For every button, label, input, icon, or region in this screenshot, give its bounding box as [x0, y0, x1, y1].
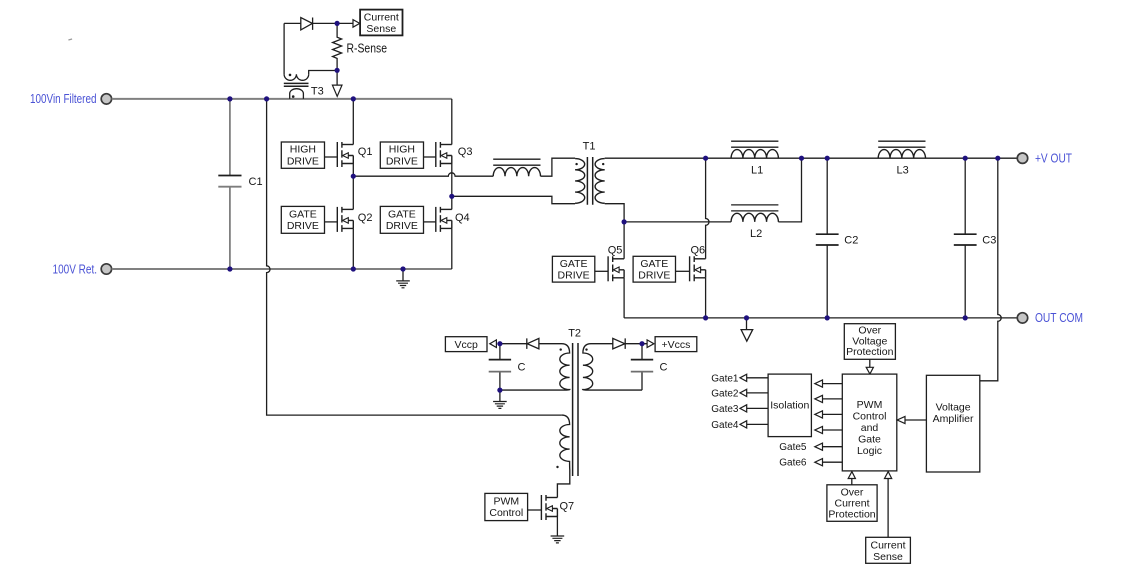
- wire GATE DRIVE to Q4 gate: [424, 221, 436, 223]
- transistor Q1: [337, 142, 353, 167]
- svg-text:Q6: Q6: [691, 244, 706, 256]
- T1 polarity dot secondary: [602, 163, 604, 165]
- wire OUT COM rail: [624, 317, 1017, 319]
- transistor Q3: [436, 142, 452, 167]
- Gate3 line and arrow: [747, 407, 768, 409]
- svg-text:Q7: Q7: [560, 501, 575, 513]
- svg-text:OUT COM: OUT COM: [1035, 311, 1083, 325]
- svg-text:HIGH: HIGH: [389, 144, 415, 156]
- svg-text:Gate3: Gate3: [711, 404, 739, 415]
- T2 polarity dot primary: [556, 466, 558, 468]
- wire Q3 drain to top rail: [451, 99, 453, 145]
- capacitor C left: [489, 359, 511, 361]
- wire PWM Control to Q7 gate: [528, 509, 542, 511]
- transformer T2 primary winding: [557, 415, 569, 497]
- transistor Q5: [608, 256, 624, 281]
- node rail2 / L2: [799, 156, 804, 161]
- ground under left C: [499, 390, 501, 401]
- terminal 100Vin Filtered: [101, 94, 111, 104]
- arrow VA into PWM logic: [905, 419, 926, 421]
- Gate4 line and arrow: [747, 423, 768, 425]
- svg-text:Q5: Q5: [608, 244, 623, 256]
- svg-text:100V Ret.: 100V Ret.: [53, 263, 98, 277]
- svg-text:L1: L1: [751, 164, 763, 176]
- terminal OUT COM: [1017, 313, 1027, 323]
- node top rail / C1: [227, 96, 232, 101]
- wire L2 row: [624, 221, 731, 223]
- capacitor C2: [816, 234, 839, 245]
- wire C1 branch: [229, 99, 231, 269]
- wire GATE DRIVE to Q6 gate: [676, 270, 690, 272]
- svg-text:GATE: GATE: [560, 258, 588, 270]
- wire HIGH DRIVE to Q3 gate: [424, 156, 436, 158]
- svg-text:Control: Control: [489, 507, 523, 519]
- node left C ground: [497, 388, 502, 393]
- wire secondary top rail to +V OUT: [605, 157, 1018, 159]
- PWM to Isolation arrow row 3: [823, 413, 843, 415]
- svg-text:L2: L2: [750, 228, 762, 240]
- box +Vccs: [655, 337, 697, 352]
- capacitor C3: [954, 234, 977, 245]
- terminal 100V Ret.: [101, 264, 111, 274]
- wire bottom input rail: [112, 268, 452, 270]
- svg-text:Gate6: Gate6: [779, 458, 807, 469]
- wire HIGH DRIVE to Q1 gate: [325, 156, 338, 158]
- box Voltage Amplifier: [926, 375, 979, 472]
- svg-text:Q2: Q2: [358, 212, 373, 224]
- svg-text:Control: Control: [853, 411, 887, 423]
- smudge artifact: [68, 39, 72, 40]
- node rail2 / sense: [995, 156, 1000, 161]
- box HIGH DRIVE (Q3): [380, 142, 423, 168]
- node diode / R-Sense: [335, 21, 340, 26]
- wire node A to series inductor (hops over Q3 branch): [353, 173, 493, 176]
- node top rail / Q1 drain: [351, 96, 356, 101]
- PWM to Isolation arrow row 1: [823, 383, 843, 385]
- svg-text:DRIVE: DRIVE: [386, 220, 418, 232]
- transformer T2 right secondary winding: [583, 344, 642, 390]
- svg-text:+Vccs: +Vccs: [662, 339, 691, 351]
- terminal +V OUT: [1017, 153, 1027, 163]
- svg-text:PWM: PWM: [857, 399, 883, 411]
- wire Q4 drain to node B: [451, 196, 453, 209]
- transistor Q2: [337, 207, 353, 232]
- wire OVP to PWM logic with down arrow: [869, 359, 871, 367]
- inductor L2: [731, 205, 778, 222]
- wire OCP to PWM logic with up arrow: [851, 479, 853, 485]
- node B Q3/Q4: [449, 194, 454, 199]
- T2 polarity dot right secondary: [585, 348, 587, 350]
- series inductor (resonant): [493, 159, 540, 176]
- box GATE DRIVE (Q2): [281, 206, 324, 233]
- node OUT COM / Q6 source: [703, 315, 708, 320]
- transformer T2 core: [573, 343, 578, 476]
- wire Q2 drain to node A: [352, 176, 354, 209]
- inductor L1: [731, 141, 778, 158]
- svg-text:T3: T3: [311, 85, 324, 97]
- svg-text:R-Sense: R-Sense: [347, 40, 388, 55]
- node bottom rail / ground: [400, 266, 405, 271]
- node A Q1/Q2: [351, 174, 356, 179]
- box GATE DRIVE (Q4): [380, 206, 423, 233]
- svg-text:HIGH: HIGH: [290, 144, 316, 156]
- transformer T1 core: [587, 157, 592, 205]
- svg-text:DRIVE: DRIVE: [638, 270, 670, 282]
- svg-text:Vccp: Vccp: [455, 339, 479, 351]
- box GATE DRIVE (Q6): [633, 256, 675, 282]
- wire Q1 drain to top rail: [352, 99, 354, 145]
- T3 polarity dot primary: [292, 95, 295, 98]
- capacitor C (right) branch: [641, 344, 643, 390]
- Gate1 line and arrow: [747, 377, 768, 379]
- svg-text:Protection: Protection: [846, 346, 893, 358]
- capacitor C2 branch: [826, 158, 828, 318]
- node OUT COM / C2: [825, 315, 830, 320]
- wire T3 left vertical: [283, 23, 285, 74]
- svg-text:Gate: Gate: [858, 434, 881, 446]
- box PWM Control (Q7 drive): [485, 493, 528, 520]
- svg-text:DRIVE: DRIVE: [386, 155, 418, 167]
- capacitor C3 branch: [964, 158, 966, 318]
- wire +V OUT sense to Voltage Amplifier (hops OUT COM rail): [980, 158, 1001, 381]
- wire diode feed: [284, 22, 301, 24]
- node bottom rail / Q2 source: [351, 266, 356, 271]
- capacitor C1: [218, 175, 241, 177]
- svg-text:C2: C2: [844, 234, 858, 246]
- svg-text:Gate1: Gate1: [711, 373, 739, 384]
- svg-text:T2: T2: [568, 328, 581, 340]
- Gate5 arrow row: [823, 446, 843, 448]
- node T1 secondary / Q5 drain: [622, 219, 627, 224]
- wire stub down to rail junction arrow: [336, 71, 338, 86]
- svg-text:100Vin Filtered: 100Vin Filtered: [30, 92, 97, 106]
- svg-text:C: C: [660, 361, 668, 373]
- transformer T1 primary winding: [575, 159, 585, 204]
- svg-text:Voltage: Voltage: [936, 401, 971, 413]
- box Current Sense (top): [360, 10, 402, 36]
- capacitor C (left) branch: [499, 344, 501, 390]
- svg-text:Gate4: Gate4: [711, 420, 739, 431]
- wire top input rail: [112, 98, 452, 100]
- inductor L3: [878, 141, 925, 158]
- node R-Sense / T3 secondary: [335, 68, 340, 73]
- wire T1 secondary bottom lead: [605, 204, 624, 222]
- svg-text:C1: C1: [249, 176, 263, 188]
- node OUT COM / C3: [963, 315, 968, 320]
- T2 polarity dot left secondary: [560, 348, 562, 350]
- transformer T2 left secondary winding: [500, 344, 570, 390]
- wire diode to junction: [625, 343, 647, 345]
- transformer T3 secondary winding: [284, 74, 309, 80]
- svg-text:Gate2: Gate2: [711, 388, 739, 399]
- svg-text:C: C: [518, 361, 526, 373]
- arrow into current sense box: [353, 20, 360, 28]
- wire Q5 drain: [623, 222, 625, 259]
- svg-text:Current: Current: [870, 539, 905, 551]
- ground on bottom rail: [402, 269, 404, 281]
- svg-text:Isolation: Isolation: [770, 400, 809, 412]
- svg-text:DRIVE: DRIVE: [558, 270, 590, 282]
- svg-text:DRIVE: DRIVE: [287, 155, 319, 167]
- node top rail / T2 feed: [264, 96, 269, 101]
- wire Q6 drain branch (hops over L2 row): [706, 158, 709, 259]
- transformer T1 secondary winding: [595, 159, 605, 204]
- wire inductor to T1 primary top: [541, 158, 576, 176]
- wire R-Sense to T3 secondary: [309, 71, 337, 75]
- svg-text:GATE: GATE: [640, 258, 668, 270]
- node rail2 / C3: [963, 156, 968, 161]
- box Vccp: [445, 337, 487, 352]
- svg-text:L3: L3: [897, 164, 909, 176]
- svg-text:Sense: Sense: [873, 551, 903, 563]
- svg-text:Q3: Q3: [458, 146, 473, 158]
- arrow into Vccp box: [490, 340, 497, 348]
- wire Q2 source to bottom rail: [352, 228, 354, 269]
- box Over Current Protection: [827, 485, 877, 522]
- T3 primary winding bump: [290, 89, 304, 99]
- wire GATE DRIVE to Q2 gate: [325, 221, 338, 223]
- svg-text:Q1: Q1: [358, 146, 373, 158]
- wire junction to diode: [500, 343, 527, 345]
- box GATE DRIVE (Q5): [552, 256, 594, 282]
- arrow into +Vccs box: [647, 340, 654, 348]
- svg-text:C3: C3: [982, 234, 996, 246]
- node bottom rail / C1: [227, 266, 232, 271]
- diode D1: [301, 18, 313, 30]
- wire Q6 source to OUT COM rail: [705, 278, 707, 318]
- svg-text:and: and: [861, 422, 879, 434]
- node rail2 / C2: [825, 156, 830, 161]
- PWM to Isolation arrow row 2: [823, 398, 843, 400]
- diode left (to Vccp): [527, 338, 539, 349]
- T3 polarity dot secondary: [289, 74, 292, 77]
- wire Q1 source to node A: [352, 164, 354, 177]
- Gate2 line and arrow: [747, 392, 768, 394]
- svg-text:DRIVE: DRIVE: [287, 220, 319, 232]
- capacitor C right: [631, 359, 653, 361]
- box Over Voltage Protection: [844, 324, 895, 360]
- svg-text:Q4: Q4: [455, 212, 470, 224]
- ground arrow on OUT COM rail: [746, 318, 748, 330]
- T1 polarity dot primary: [575, 163, 577, 165]
- node Vccs junction: [639, 341, 644, 346]
- node Vccp junction: [497, 341, 502, 346]
- svg-text:T1: T1: [583, 140, 596, 152]
- ground under Q7: [551, 536, 565, 543]
- svg-text:Sense: Sense: [366, 23, 396, 35]
- diode right (to +Vccs): [613, 338, 625, 349]
- transistor Q7: [541, 495, 557, 520]
- svg-text:Current: Current: [364, 12, 399, 24]
- PWM to Isolation arrow row 4: [823, 429, 843, 431]
- wire Q7 source to ground: [556, 516, 558, 537]
- box Current Sense (bottom): [866, 537, 911, 563]
- wire Current Sense to PWM logic with up arrow: [887, 479, 889, 538]
- node OUT COM / ground arrow: [744, 315, 749, 320]
- resistor R-Sense: [333, 23, 342, 70]
- wire Q5 source to OUT COM rail: [623, 278, 625, 318]
- wire primary feed from input section (hops over bottom rail): [267, 99, 562, 415]
- transistor Q4: [436, 207, 452, 232]
- svg-text:Protection: Protection: [828, 509, 875, 521]
- svg-text:PWM: PWM: [493, 495, 519, 507]
- wire GATE DRIVE to Q5 gate: [595, 270, 608, 272]
- svg-text:GATE: GATE: [388, 208, 416, 220]
- wire diode to junction: [313, 22, 354, 24]
- box Isolation: [768, 374, 811, 437]
- T3 core: [284, 83, 309, 86]
- arrow down to rail: [332, 85, 342, 96]
- box PWM Control and Gate Logic: [842, 374, 897, 471]
- svg-text:Gate5: Gate5: [779, 442, 807, 453]
- svg-text:GATE: GATE: [289, 208, 317, 220]
- svg-text:+V OUT: +V OUT: [1035, 152, 1072, 166]
- svg-text:Logic: Logic: [857, 445, 882, 457]
- wire Q4 source to bottom rail: [451, 228, 453, 269]
- node rail2 / Q6 drain: [703, 156, 708, 161]
- svg-text:Amplifier: Amplifier: [933, 413, 974, 425]
- wire node B to T1 primary bottom: [452, 196, 575, 203]
- box HIGH DRIVE (Q1): [281, 142, 324, 168]
- wire L2 out up to rail: [778, 158, 801, 222]
- transistor Q6: [690, 256, 706, 281]
- wire Q3 source to node B: [451, 164, 453, 197]
- Gate6 arrow row: [823, 461, 843, 463]
